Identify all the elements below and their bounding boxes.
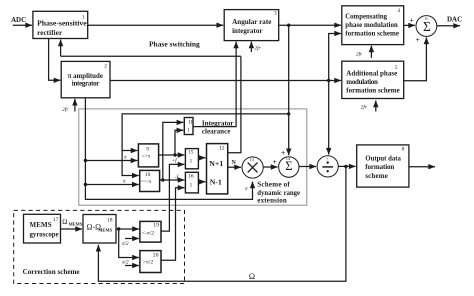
wire: branch down into block 20 upper input	[119, 229, 139, 258]
svg-text:rectifier: rectifier	[37, 29, 62, 37]
svg-text:MEMS: MEMS	[69, 221, 83, 226]
junction on block2-block5 wire	[327, 79, 330, 82]
wire: block 5 output up to summator 6 bottom	[404, 37, 426, 80]
svg-text:1: 1	[190, 183, 193, 189]
wire: block 18 output to block 19	[116, 228, 139, 230]
wire: block 3 to block 4	[279, 24, 341, 26]
svg-text:formation: formation	[365, 163, 394, 171]
wire: riser to block 11 lower input	[175, 130, 183, 155]
svg-text:clearance: clearance	[202, 127, 230, 135]
svg-text:π: π	[123, 179, 126, 185]
wire: omega feedback down and left into block 18	[98, 166, 346, 281]
wire: 2fr stub into block 2	[74, 99, 76, 112]
svg-text:17: 17	[53, 217, 59, 223]
block 1: phase-sensitive rectifier	[33, 11, 88, 38]
junction where phase wire meets vertical	[287, 112, 290, 115]
wire: summator 14 output to divider 7	[299, 166, 316, 168]
svg-text:MEMS: MEMS	[98, 227, 112, 232]
svg-text:modulation: modulation	[346, 78, 378, 86]
wire: phase switching line to block 12 riser	[61, 55, 241, 57]
svg-text:DAC: DAC	[447, 16, 462, 24]
wire: block 20 output up to block 16 lower input	[161, 188, 184, 261]
multiplier circle 13	[242, 157, 263, 178]
wire: block 16 output to block 12	[198, 181, 205, 183]
svg-text:+: +	[416, 35, 420, 44]
svg-text:gyroscope: gyroscope	[30, 230, 59, 238]
wire: 2fr stub into block 4	[370, 46, 372, 58]
svg-text:N: N	[232, 160, 237, 166]
wire: multiplier 13 output to summator 14	[263, 166, 277, 168]
svg-text:integrator: integrator	[232, 27, 262, 35]
svg-text:4: 4	[397, 8, 400, 14]
svg-text:Additional phase: Additional phase	[346, 69, 397, 77]
wire: ADC input to block 1	[13, 24, 32, 26]
svg-text:Scheme of: Scheme of	[257, 181, 290, 189]
wire: divider 7 output to block 8	[338, 165, 355, 167]
svg-text:2: 2	[104, 63, 107, 69]
text divide glyph in circle 7	[322, 161, 333, 172]
svg-text:>π/2: >π/2	[143, 260, 154, 266]
wire: junction up into block 4 second input	[329, 34, 341, 81]
wire: pi/2 stub into block 19	[125, 238, 139, 240]
svg-text:N-1: N-1	[210, 178, 222, 187]
block 20: comparator >pi/2	[140, 251, 161, 273]
svg-text:N+1: N+1	[209, 159, 223, 168]
svg-text:ADC: ADC	[11, 16, 26, 24]
wire: block 2 output right to block 5	[110, 80, 341, 82]
svg-text:-f: -f	[175, 173, 180, 180]
block 16: unit 1 lower	[185, 172, 198, 193]
svg-text:1: 1	[82, 14, 85, 20]
text times glyph in circle 13	[248, 163, 258, 173]
svg-text:18: 18	[107, 218, 113, 224]
svg-text:Ω: Ω	[249, 271, 255, 281]
svg-text:=>π: =>π	[142, 153, 151, 159]
svg-text:2fr: 2fr	[62, 106, 69, 113]
svg-text:π/2: π/2	[122, 260, 129, 266]
svg-text:π: π	[245, 186, 248, 192]
block 3: angular rate integrator	[224, 10, 279, 41]
wire: 2fr stub into block 3	[250, 42, 252, 52]
svg-text:+: +	[410, 16, 414, 25]
block 4: compensating phase modulation formation scheme	[342, 6, 404, 45]
wire: junction down to summator 14 top	[288, 25, 290, 155]
svg-text:2fr: 2fr	[255, 45, 262, 52]
block 10: comparator =<-pi	[140, 170, 160, 191]
svg-text:phase modulation: phase modulation	[345, 21, 398, 29]
svg-text:5: 5	[395, 65, 398, 71]
junction on block 9 output	[173, 153, 176, 156]
wire: block 1 to block 3	[88, 24, 224, 26]
svg-text:Phase switching: Phase switching	[149, 40, 200, 48]
svg-text:<-π/2: <-π/2	[142, 230, 154, 236]
wire: branch into block 9 upper input	[122, 150, 137, 152]
wire: block 12 N output to multiplier 13	[228, 166, 241, 168]
svg-text:2fr: 2fr	[356, 50, 363, 57]
junction pi branch to block 10	[84, 183, 87, 186]
svg-text:1: 1	[190, 159, 193, 165]
svg-text:2fr: 2fr	[361, 104, 368, 111]
block 2: pi amplitude integrator	[61, 61, 110, 97]
wire: block 1 down to block 2	[49, 39, 61, 81]
svg-text:Σ: Σ	[285, 159, 292, 173]
svg-text:Compensating: Compensating	[345, 12, 387, 20]
block 19: comparator <-pi/2	[140, 221, 161, 242]
junction on block3-block4 wire	[287, 24, 290, 27]
svg-text:19: 19	[153, 222, 159, 228]
junction on block 10 output	[161, 178, 164, 181]
svg-text:Integrator: Integrator	[202, 119, 234, 127]
svg-text:9: 9	[146, 146, 149, 152]
wire: block 8 output arrow	[409, 166, 435, 168]
block 17: MEMS gyroscope	[24, 214, 61, 243]
svg-text:+: +	[281, 148, 285, 157]
wire: summator 6 output to DAC	[437, 25, 460, 27]
svg-text:12: 12	[219, 146, 225, 152]
svg-text:Output data: Output data	[365, 154, 401, 162]
junction on block 18 output	[117, 227, 120, 230]
boundary box of dynamic range extension scheme (gray)	[79, 109, 307, 205]
svg-text:π: π	[124, 155, 127, 161]
svg-text:formation scheme: formation scheme	[346, 87, 399, 95]
wire: block 15 output to block 12	[198, 157, 205, 159]
wire: block 4 output to summator 6	[404, 24, 415, 26]
junction on divider output	[344, 165, 347, 168]
svg-text:integrator: integrator	[72, 79, 100, 87]
wire: block 12 side output up to phase switching line	[228, 56, 241, 153]
wire: pi branch into block 10 lower input	[85, 184, 138, 186]
svg-text:Phase-sensitive: Phase-sensitive	[37, 20, 87, 28]
block 5: additional phase modulation formation scheme	[342, 61, 404, 98]
svg-text:Correction scheme: Correction scheme	[23, 267, 81, 276]
wire: 2fr stub into block 5	[375, 101, 377, 112]
summator circle 6	[416, 16, 437, 37]
svg-text:Σ: Σ	[423, 19, 431, 34]
svg-text:MEMS: MEMS	[30, 221, 52, 229]
svg-text:Ω: Ω	[62, 218, 67, 226]
dashed box: correction scheme	[14, 210, 185, 283]
wire: riser to block 11 upper input	[163, 122, 184, 180]
block 8: output data formation scheme	[357, 145, 409, 187]
block 18: omega minus omega-mems	[83, 215, 116, 244]
svg-text:11: 11	[188, 120, 194, 126]
block 12: counter N+1 / N-1	[207, 144, 228, 194]
svg-text:1: 1	[187, 128, 190, 134]
block 11: integrator clearance unit	[184, 118, 193, 135]
wire: block 2 down output with pi branches and to multiplier 13	[85, 98, 252, 200]
junction pi branch to block 9	[84, 159, 87, 162]
svg-text:scheme: scheme	[365, 172, 388, 180]
block 9: comparator =>pi	[138, 144, 158, 167]
svg-text:8: 8	[402, 147, 405, 153]
svg-text:π/2: π/2	[122, 241, 129, 247]
svg-text:16: 16	[188, 173, 194, 179]
svg-text:Angular rate: Angular rate	[232, 18, 271, 26]
svg-text:3: 3	[274, 11, 277, 17]
wire: block 10 output to block 16	[160, 179, 185, 181]
wire: pi/2 stub into block 20	[125, 265, 139, 267]
svg-text:15: 15	[188, 149, 194, 155]
svg-text:=<-π: =<-π	[141, 179, 152, 185]
wire: junction down into divider 7 top	[328, 81, 330, 155]
summator circle 14	[279, 157, 299, 177]
wire: pi branch into block 9 lower input	[85, 160, 137, 162]
svg-text:+: +	[273, 157, 277, 166]
wire: phase line from vertical to comparators	[122, 114, 289, 176]
wire: block 9 output to block 15	[158, 154, 184, 156]
svg-text:+f: +f	[172, 157, 179, 164]
svg-text:extension: extension	[257, 196, 287, 204]
wire: block 19 output up to block 15 lower input	[161, 164, 184, 231]
block 15: unit 1 upper	[185, 149, 198, 169]
svg-text:formation scheme: formation scheme	[345, 30, 399, 38]
wire: phase switching stub up into block 1	[60, 40, 62, 57]
wire: block 17 to block 18	[61, 228, 83, 230]
svg-text:10: 10	[145, 172, 151, 178]
divider circle 7	[317, 156, 338, 177]
wire: block 11 output up into block 3 bottom	[193, 42, 236, 127]
svg-text:20: 20	[153, 252, 159, 258]
